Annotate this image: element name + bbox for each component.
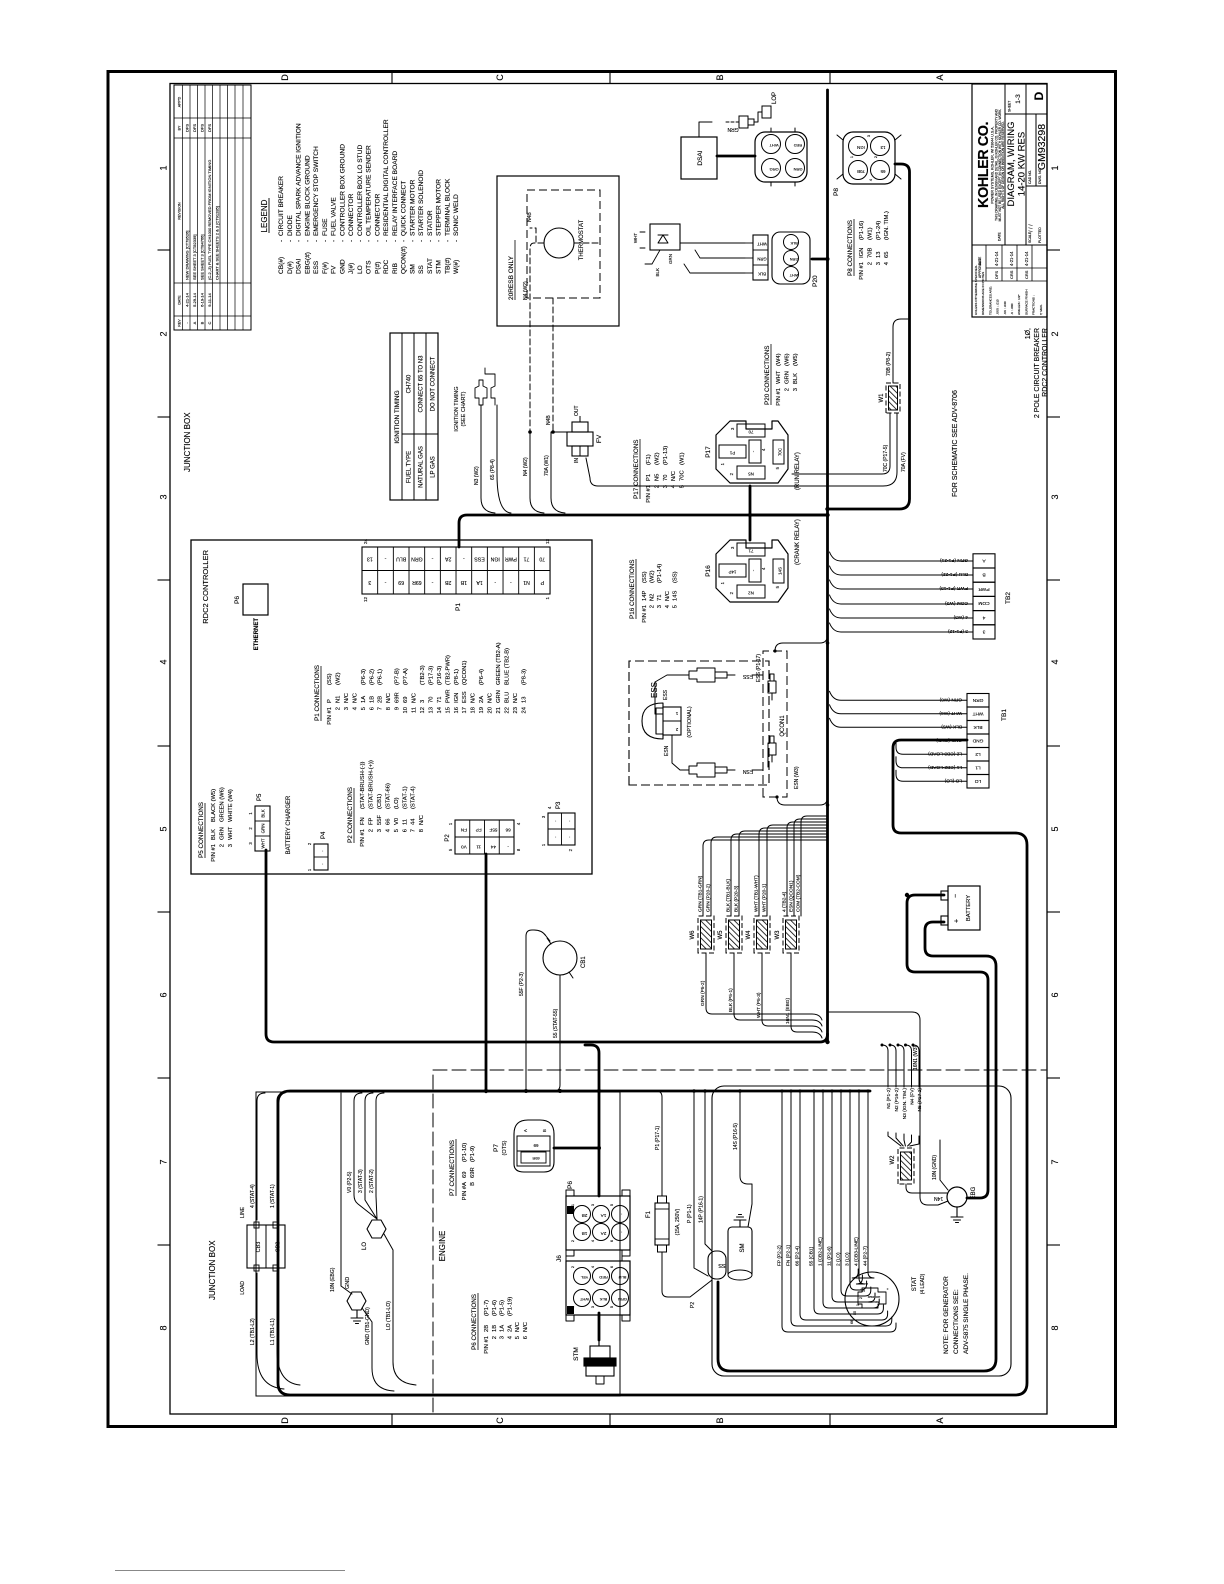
- svg-text:N/C: N/C: [671, 471, 677, 481]
- svg-text:3: 3: [344, 707, 350, 710]
- svg-text:CAD NO.: CAD NO.: [1028, 170, 1032, 184]
- svg-text:COM (TB2-COM): COM (TB2-COM): [796, 874, 802, 912]
- svg-text:BLK: BLK: [655, 268, 660, 277]
- svg-text:66: 66: [385, 819, 391, 825]
- wire bus DSAI stub: [717, 155, 755, 158]
- svg-text:ORG: ORG: [769, 167, 778, 172]
- svg-text:SS: SS: [718, 1262, 726, 1268]
- svg-text:BLK: BLK: [790, 241, 798, 245]
- svg-text:PIN #1: PIN #1: [360, 829, 366, 847]
- wire fan stator: [782, 1091, 896, 1332]
- connector P20 cells: [753, 235, 768, 280]
- svg-text:4: 4: [159, 659, 169, 664]
- svg-text:LO (TB1-LO): LO (TB1-LO): [386, 1301, 392, 1330]
- svg-text:ESN (W3): ESN (W3): [794, 766, 800, 789]
- svg-text:IGN: IGN: [454, 693, 460, 703]
- svg-text:1: 1: [541, 843, 546, 846]
- svg-text:-: -: [313, 240, 320, 242]
- svg-text:4: 4: [665, 604, 671, 608]
- svg-text:PIN #1: PIN #1: [642, 605, 648, 623]
- svg-text:70: 70: [748, 430, 753, 435]
- svg-text:BLU: BLU: [396, 555, 406, 561]
- diode D assembly: [650, 224, 680, 250]
- svg-text:LOP: LOP: [772, 92, 778, 104]
- svg-text:1: 1: [850, 156, 854, 158]
- wire P P1-1: [694, 1091, 708, 1276]
- svg-text:.: .: [618, 1231, 624, 1232]
- svg-text:CB2: CB2: [276, 1242, 282, 1253]
- svg-text:EMERGENCY STOP SWITCH: EMERGENCY STOP SWITCH: [313, 146, 320, 236]
- svg-text:ESN: ESN: [742, 768, 753, 774]
- wire W2 to EBG 14N: [906, 1184, 947, 1193]
- ignition timing terminals: [475, 380, 487, 405]
- svg-text:20: 20: [488, 707, 494, 713]
- svg-text:2: 2: [571, 1240, 575, 1242]
- svg-text:GND (GND): GND (GND): [936, 737, 962, 743]
- quick connect terminal ESS: [689, 668, 715, 682]
- svg-text:B: B: [715, 1417, 725, 1423]
- svg-text:LO: LO: [357, 265, 364, 274]
- svg-text:1B: 1B: [460, 579, 467, 585]
- svg-text:(P1-14): (P1-14): [657, 564, 663, 583]
- svg-text:L1: L1: [975, 765, 981, 771]
- svg-text:BY: BY: [178, 125, 182, 130]
- svg-text:-: -: [444, 240, 451, 242]
- svg-text:2: 2: [568, 848, 573, 851]
- svg-text:PWR: PWR: [505, 555, 517, 561]
- svg-text:CHART & SEE SHEETS 2 & 3 [CT91: CHART & SEE SHEETS 2 & 3 [CT91285]: [215, 206, 220, 280]
- svg-text:16N1 (EBG): 16N1 (EBG): [785, 997, 791, 1024]
- svg-text:1: 1: [571, 1306, 575, 1308]
- svg-text:P1: P1: [729, 451, 735, 456]
- svg-text:PIN #1: PIN #1: [211, 844, 217, 862]
- svg-text:RELAY INTERFACE BOARD: RELAY INTERFACE BOARD: [392, 151, 399, 236]
- svg-text:-: -: [431, 555, 433, 561]
- svg-text:14S (P16-5): 14S (P16-5): [733, 1123, 739, 1150]
- svg-text:(STAT-BRUSH-(-)): (STAT-BRUSH-(-)): [360, 761, 366, 809]
- wire bus J6 to STM: [598, 1313, 601, 1340]
- svg-text:N5: N5: [654, 474, 660, 481]
- svg-text:CRS: CRS: [1009, 270, 1014, 279]
- svg-text:RIB: RIB: [392, 262, 399, 274]
- svg-text:1: 1: [720, 462, 725, 465]
- svg-text:-: -: [374, 240, 381, 242]
- svg-text:GND: GND: [972, 738, 983, 744]
- svg-text:BLK: BLK: [599, 1297, 607, 1302]
- svg-text:-: -: [392, 240, 399, 242]
- svg-text:14N: 14N: [934, 1195, 944, 1201]
- svg-text:17: 17: [462, 707, 468, 713]
- svg-text:ADV-5875 SINGLE PHASE.: ADV-5875 SINGLE PHASE.: [963, 1273, 970, 1354]
- svg-text:ESN: ESN: [664, 745, 670, 756]
- wire 14S P16-5: [740, 1091, 752, 1227]
- svg-text:14P: 14P: [642, 591, 648, 601]
- svg-text:PWR: PWR: [978, 586, 990, 592]
- zone ticks top: [158, 249, 171, 251]
- svg-text:6: 6: [159, 992, 169, 997]
- svg-text:(P8-3): (P8-3): [521, 669, 527, 685]
- svg-text:-: -: [322, 240, 329, 242]
- svg-text:WHT (P5-3): WHT (P5-3): [756, 992, 762, 1018]
- svg-text:GRN: GRN: [618, 1297, 627, 1302]
- svg-text:(P7-A): (P7-A): [403, 668, 409, 685]
- svg-text:P3: P3: [556, 801, 562, 809]
- svg-text:4: 4: [982, 614, 985, 620]
- svg-text:D: D: [1032, 91, 1046, 100]
- wire L1 TB1-L1: [277, 1273, 300, 1385]
- QCON1 quick connect: [763, 651, 787, 797]
- stator STAT: [845, 1272, 899, 1326]
- svg-text:DO NOT CONNECT: DO NOT CONNECT: [431, 356, 437, 411]
- svg-text:55 (STAT-55): 55 (STAT-55): [553, 1008, 559, 1038]
- svg-text:IGN: IGN: [490, 555, 499, 561]
- title block: [972, 84, 1047, 317]
- svg-text:GM93298: GM93298: [1036, 124, 1048, 170]
- svg-text:.: .: [618, 1213, 624, 1214]
- svg-text:FUSE: FUSE: [322, 218, 329, 236]
- stepper motor STM: [586, 1366, 614, 1376]
- svg-text:DIAGRAM, WIRING: DIAGRAM, WIRING: [1006, 122, 1017, 207]
- svg-text:1: 1: [571, 1204, 575, 1206]
- svg-text:GRN (W6): GRN (W6): [939, 696, 962, 702]
- svg-text:BLK: BLK: [211, 829, 217, 840]
- svg-text:(15A, 250V): (15A, 250V): [675, 1208, 681, 1235]
- svg-text:5: 5: [159, 826, 169, 831]
- svg-text:(STAT-1): (STAT-1): [402, 786, 408, 809]
- svg-text:70C (P17-5): 70C (P17-5): [883, 444, 889, 472]
- svg-text:3: 3: [982, 629, 985, 635]
- svg-text:SURFACE FINISH: SURFACE FINISH: [1024, 289, 1028, 315]
- svg-text:14S: 14S: [778, 567, 783, 575]
- svg-text:ESN (QCON1): ESN (QCON1): [789, 880, 795, 912]
- svg-text:ENGINE BLOCK GROUND: ENGINE BLOCK GROUND: [304, 155, 311, 236]
- svg-text:N/C: N/C: [471, 693, 477, 703]
- svg-text:N4 (W2): N4 (W2): [523, 281, 529, 300]
- svg-text:2: 2: [729, 591, 734, 594]
- wire L2 TB1-L2: [257, 1273, 284, 1389]
- svg-text:(TB2-3): (TB2-3): [420, 665, 426, 685]
- svg-text:P8 CONNECTIONS: P8 CONNECTIONS: [847, 220, 854, 276]
- svg-text:11: 11: [476, 845, 481, 850]
- svg-text:1: 1: [675, 711, 678, 716]
- svg-text:PWR (P1-15): PWR (P1-15): [939, 585, 968, 591]
- svg-text:23: 23: [513, 707, 519, 713]
- svg-text:15: 15: [445, 707, 451, 713]
- svg-text:1: 1: [159, 165, 169, 170]
- wire bundle weld inputs from harness: [703, 840, 827, 916]
- svg-text:(OPTIONAL): (OPTIONAL): [687, 706, 693, 738]
- svg-text:8: 8: [516, 848, 521, 851]
- svg-text:.: .: [319, 863, 325, 864]
- svg-text:P17 CONNECTIONS: P17 CONNECTIONS: [633, 440, 640, 499]
- svg-text:STM: STM: [573, 1347, 580, 1361]
- svg-text:12: 12: [420, 707, 426, 713]
- svg-text:HOLDER: HOLDER: [867, 1295, 880, 1299]
- svg-text:SM: SM: [740, 1243, 746, 1252]
- svg-text:10: 10: [403, 707, 409, 713]
- svg-text:BLACK (W5): BLACK (W5): [211, 789, 217, 822]
- svg-text:(CB1): (CB1): [377, 794, 383, 809]
- svg-text:WHT: WHT: [633, 233, 638, 243]
- svg-text:14: 14: [437, 706, 443, 713]
- svg-text:P5: P5: [257, 793, 263, 801]
- svg-text:FP: FP: [368, 817, 374, 825]
- svg-text:BLU: BLU: [504, 692, 510, 703]
- svg-text:L2: L2: [975, 751, 981, 757]
- svg-text:.XX : .030: .XX : .030: [1003, 301, 1007, 315]
- sonic weld W2: [898, 1148, 914, 1184]
- battery: [948, 886, 980, 930]
- svg-text:55F: 55F: [377, 815, 383, 825]
- svg-text:GREEN (W6): GREEN (W6): [219, 787, 225, 822]
- svg-text:P1: P1: [646, 474, 652, 481]
- svg-text:(W1): (W1): [680, 452, 686, 465]
- svg-text:STEPPER MOTOR: STEPPER MOTOR: [436, 179, 443, 236]
- svg-text:3: 3: [730, 427, 735, 430]
- svg-text:PLOTTED: PLOTTED: [1038, 227, 1042, 243]
- svg-text:W(#): W(#): [453, 260, 460, 274]
- svg-text:DFS: DFS: [185, 124, 190, 132]
- svg-text:D: D: [280, 1417, 290, 1424]
- svg-text:P (P1-1): P (P1-1): [687, 1204, 693, 1223]
- svg-text:-: -: [427, 240, 434, 242]
- connector P6 engine: [566, 1196, 630, 1250]
- svg-text:69R: 69R: [532, 1156, 539, 1161]
- svg-text:BLK: BLK: [758, 272, 766, 277]
- svg-text:P2: P2: [690, 1302, 696, 1308]
- svg-text:-: -: [296, 240, 303, 242]
- svg-text:13: 13: [367, 555, 373, 561]
- wire 55F CB1: [526, 930, 550, 1091]
- svg-text:P: P: [327, 699, 333, 703]
- svg-text:GND: GND: [345, 1277, 351, 1289]
- svg-text:RDC2 CONTROLLER: RDC2 CONTROLLER: [1042, 328, 1049, 397]
- svg-text:5: 5: [515, 1336, 521, 1339]
- svg-text:14-20 KW RES: 14-20 KW RES: [1017, 132, 1028, 196]
- ethernet connector P6 (controller): [243, 584, 268, 615]
- svg-text:8: 8: [159, 1325, 169, 1330]
- svg-text:DSAI: DSAI: [296, 258, 303, 274]
- svg-text:RDC2 CONTROLLER: RDC2 CONTROLLER: [201, 549, 210, 623]
- svg-text:CIRCUIT BREAKER: CIRCUIT BREAKER: [278, 176, 285, 236]
- svg-text:2B: 2B: [378, 696, 384, 703]
- svg-text:70B (P8-2): 70B (P8-2): [886, 351, 892, 376]
- svg-text:2 (LO): 2 (LO): [836, 1252, 842, 1266]
- svg-text:B: B: [200, 321, 205, 324]
- svg-text:N2 (P16-2): N2 (P16-2): [894, 1088, 900, 1112]
- sonic weld W1: [886, 383, 900, 413]
- svg-text:WHT: WHT: [757, 242, 767, 247]
- svg-text:SEE SHEET 3 [CT84766]: SEE SHEET 3 [CT84766]: [200, 234, 205, 280]
- svg-text:CONNECTIONS SEE:: CONNECTIONS SEE:: [953, 1289, 960, 1354]
- svg-text:-: -: [409, 240, 416, 242]
- svg-text:OTS: OTS: [366, 260, 373, 274]
- svg-text:-: -: [383, 240, 390, 242]
- svg-text:JUNCTION BOX: JUNCTION BOX: [208, 1240, 217, 1300]
- svg-text:4-21-14: 4-21-14: [1024, 251, 1029, 266]
- svg-text:6: 6: [369, 707, 375, 710]
- svg-text:STAT: STAT: [912, 1276, 918, 1291]
- svg-text:2B: 2B: [444, 579, 451, 585]
- svg-text:71: 71: [437, 697, 443, 703]
- svg-text:N1 (P1-2): N1 (P1-2): [886, 1088, 892, 1109]
- svg-text:8: 8: [419, 829, 425, 832]
- junction box outline: [256, 1092, 620, 1396]
- svg-text:A: A: [192, 321, 197, 324]
- svg-text:(STAT-66): (STAT-66): [385, 783, 391, 809]
- svg-text:CH740: CH740: [407, 374, 413, 393]
- svg-text:19: 19: [479, 707, 485, 713]
- connector P20 plug: [772, 232, 810, 284]
- wire N4B thermostat: [530, 228, 544, 243]
- svg-text:(W2): (W2): [335, 672, 341, 685]
- svg-text:69R: 69R: [470, 1167, 476, 1178]
- svg-text:10N (EBG): 10N (EBG): [330, 1267, 336, 1292]
- svg-text:SCALE: SCALE: [1028, 231, 1032, 243]
- svg-text:C: C: [495, 74, 505, 81]
- svg-text:(P1-6): (P1-6): [492, 1300, 498, 1316]
- svg-text:2 POLE CIRCUIT BREAKER: 2 POLE CIRCUIT BREAKER: [1034, 328, 1041, 418]
- thermostat: [544, 228, 574, 258]
- svg-text:13: 13: [876, 252, 882, 258]
- svg-text:ESS: ESS: [742, 673, 753, 679]
- wire F1 to P17-1: [656, 1091, 662, 1196]
- svg-text:P6: P6: [567, 1181, 574, 1189]
- svg-text:P(#): P(#): [374, 262, 381, 274]
- svg-text:SM: SM: [409, 264, 416, 274]
- svg-text:GRN: GRN: [972, 697, 983, 703]
- svg-text:11: 11: [402, 819, 408, 825]
- svg-text:1B: 1B: [582, 1231, 588, 1236]
- svg-text:5: 5: [448, 848, 453, 851]
- wire N3 (W2): [481, 405, 495, 513]
- svg-text:IGN: IGN: [859, 248, 865, 258]
- svg-text:6: 6: [523, 1336, 529, 1339]
- thermostat enclosure dashed: [527, 190, 600, 298]
- svg-text:14S: 14S: [672, 591, 678, 601]
- svg-text:P7 CONNECTIONS: P7 CONNECTIONS: [449, 1140, 456, 1196]
- svg-text:13: 13: [428, 707, 434, 713]
- sonic weld W4: [754, 916, 770, 953]
- wire 14P P16-1: [705, 1091, 712, 1251]
- svg-text:-: -: [287, 240, 294, 242]
- svg-text:2A: 2A: [600, 1231, 607, 1236]
- svg-text:BLK: BLK: [973, 724, 983, 730]
- svg-text:4 (CB3-LINE): 4 (CB3-LINE): [854, 1237, 860, 1266]
- wire 70C to P17: [792, 413, 890, 474]
- svg-text:.: .: [566, 836, 572, 837]
- svg-text:2B: 2B: [484, 1325, 490, 1332]
- svg-text:2: 2: [307, 842, 312, 845]
- svg-text:/ / /: / / /: [1029, 224, 1035, 232]
- svg-text:FUEL TYPE: FUEL TYPE: [407, 451, 413, 483]
- connector P8: [843, 132, 895, 184]
- svg-text:+: +: [954, 919, 961, 923]
- svg-text:L1 (TB1-L1): L1 (TB1-L1): [270, 1318, 276, 1345]
- svg-text:55 (CB1): 55 (CB1): [809, 1246, 815, 1266]
- sonic weld W6: [698, 916, 714, 953]
- svg-text:66 (P2-4): 66 (P2-4): [795, 1246, 801, 1266]
- svg-text:DATE: DATE: [998, 231, 1002, 241]
- svg-text:N3 (W2): N3 (W2): [474, 466, 480, 485]
- DSAI connector: [755, 132, 807, 182]
- svg-text:4: 4: [1050, 659, 1060, 664]
- terminal block TB2: [973, 625, 995, 639]
- svg-text:SS: SS: [418, 265, 425, 274]
- svg-text:6: 6: [1050, 992, 1060, 997]
- wire 4 STAT-4: [257, 1093, 265, 1220]
- svg-text:V0: V0: [394, 818, 400, 825]
- zone ticks bottom: [1047, 249, 1060, 251]
- wire bus battery positive cable: [718, 922, 996, 1371]
- svg-text:N/C: N/C: [665, 591, 671, 601]
- svg-text:COM: COM: [978, 600, 989, 606]
- svg-text:1 (CB2-LINE): 1 (CB2-LINE): [818, 1237, 824, 1266]
- svg-text:5: 5: [394, 829, 400, 832]
- svg-text:20RESB ONLY: 20RESB ONLY: [508, 255, 515, 300]
- svg-text:N2: N2: [650, 594, 656, 601]
- svg-text:-: -: [431, 579, 433, 585]
- svg-text:B: B: [470, 1182, 476, 1186]
- starter motor SM: [728, 1227, 752, 1277]
- ground symbol at GND: [351, 1310, 363, 1324]
- svg-text:4 (TB2-4): 4 (TB2-4): [782, 891, 788, 912]
- svg-text:70A (W1): 70A (W1): [544, 455, 550, 476]
- svg-text:(P1-19): (P1-19): [507, 1297, 513, 1316]
- circuit breaker CB3: [247, 1225, 285, 1268]
- svg-text:(P1-10): (P1-10): [462, 1143, 468, 1162]
- svg-text:70B: 70B: [857, 169, 865, 174]
- svg-text:3: 3: [420, 700, 426, 703]
- svg-text:3 (STAT-3): 3 (STAT-3): [358, 1169, 364, 1193]
- svg-text:(STAT-BRUSH-(+)): (STAT-BRUSH-(+)): [368, 760, 374, 809]
- svg-text:4: 4: [547, 806, 552, 809]
- wire ESS pin2 to terminal: [672, 735, 689, 770]
- svg-text:ESS (P1-17): ESS (P1-17): [756, 654, 762, 682]
- svg-text:BATTERY CHARGER: BATTERY CHARGER: [286, 795, 292, 854]
- svg-text:(CRANK RELAY): (CRANK RELAY): [795, 519, 801, 565]
- svg-text:DFS: DFS: [207, 124, 212, 132]
- svg-text:-: -: [384, 579, 386, 585]
- svg-text:PWR: PWR: [445, 689, 451, 703]
- svg-text:(W4): (W4): [776, 353, 782, 366]
- svg-text:69: 69: [398, 579, 404, 585]
- connector P7 OTS: [514, 1120, 554, 1172]
- svg-text:2: 2: [159, 331, 169, 336]
- wire N4 to harness: [530, 432, 544, 513]
- engine block ground EBG: [947, 1187, 967, 1207]
- wire 70A to harness: [551, 432, 565, 513]
- svg-text:DATE: DATE: [178, 295, 182, 305]
- svg-text:GND (TB1-GND): GND (TB1-GND): [365, 1307, 371, 1345]
- svg-text:TOLERANCES ARE:: TOLERANCES ARE:: [988, 286, 992, 315]
- svg-text:2: 2: [729, 472, 734, 475]
- svg-text:LP GAS: LP GAS: [431, 456, 437, 478]
- svg-text:2B: 2B: [582, 1213, 588, 1218]
- svg-text:ESS: ESS: [474, 555, 485, 561]
- svg-text:(P8-1): (P8-1): [454, 669, 460, 685]
- svg-text:N4B: N4B: [546, 415, 552, 425]
- svg-text:3: 3: [867, 135, 871, 137]
- svg-text:NEW DRAWING [CT78526]: NEW DRAWING [CT78526]: [185, 231, 190, 280]
- svg-text:STATOR: STATOR: [427, 210, 434, 236]
- svg-text:55F: 55F: [489, 828, 497, 833]
- svg-text:J(#): J(#): [348, 263, 355, 274]
- low oil pressure switch LOP: [699, 122, 712, 137]
- svg-text:13: 13: [880, 145, 885, 150]
- svg-text:6: 6: [402, 829, 408, 832]
- svg-text:1: 1: [307, 868, 312, 871]
